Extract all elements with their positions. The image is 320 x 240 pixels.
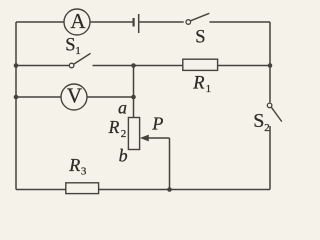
- svg-text:3: 3: [81, 165, 87, 177]
- junction node: left rail / voltmeter row: [14, 95, 19, 100]
- junction node: voltmeter row / R2 branch: [131, 95, 136, 100]
- wire: voltmeter row, left rail to voltmeter: [16, 96, 61, 98]
- svg-text:S: S: [65, 36, 75, 56]
- switch S1 blade: [74, 53, 91, 64]
- wire: voltmeter row, voltmeter to node: [87, 96, 134, 98]
- svg-text:R: R: [68, 155, 80, 175]
- wire: top rail, ammeter to battery: [90, 21, 133, 23]
- wire: bottom rail: [16, 189, 270, 191]
- voltmeter V circle: [61, 84, 87, 110]
- svg-text:V: V: [67, 84, 82, 108]
- junction node: middle rail / R2 branch: [131, 63, 136, 68]
- svg-text:1: 1: [206, 83, 212, 95]
- wire: middle rail, S1 through R1 to right rail: [93, 65, 271, 67]
- resistor R1 box: [183, 59, 218, 70]
- wire: top rail, switch S to right corner: [210, 21, 271, 23]
- ammeter A circle: [64, 9, 90, 35]
- svg-text:2: 2: [121, 128, 127, 140]
- switch S1 pivot circle: [69, 63, 74, 68]
- switch S2 blade: [271, 107, 281, 121]
- wire: left rail: [15, 22, 17, 190]
- svg-text:b: b: [119, 146, 128, 166]
- svg-text:S: S: [195, 28, 205, 48]
- junction node: middle rail / right rail: [268, 63, 273, 68]
- junction node: left rail / middle rail: [14, 63, 19, 68]
- resistor R3 box: [66, 183, 99, 194]
- junction node: wiper wire / bottom rail: [167, 187, 172, 192]
- wire: right rail lower (S2 to bottom corner): [269, 126, 271, 190]
- wire: vertical branch from middle rail down to R2 top: [133, 66, 135, 118]
- wire: right rail upper (to S2): [269, 22, 271, 103]
- wire: top rail, left corner to ammeter: [16, 21, 64, 23]
- wiper arrowhead pointing at R2: [140, 135, 149, 142]
- svg-text:A: A: [70, 9, 86, 33]
- rheostat R2 box: [128, 118, 139, 150]
- svg-text:1: 1: [75, 45, 81, 57]
- svg-text:R: R: [108, 117, 120, 137]
- wire: middle rail, left corner to S1: [16, 65, 69, 67]
- svg-text:P: P: [151, 114, 163, 134]
- svg-text:a: a: [118, 98, 127, 118]
- wire: wiper vertical down to bottom rail: [169, 138, 171, 190]
- svg-text:2: 2: [264, 122, 270, 134]
- wire: top rail, battery to switch S: [140, 21, 184, 23]
- wire: wiper horizontal from arrow to corner: [147, 137, 170, 139]
- svg-text:R: R: [192, 74, 204, 94]
- battery positive long plate: [138, 14, 140, 33]
- battery negative short plate: [133, 18, 135, 27]
- switch S blade: [191, 13, 210, 20]
- switch S pivot circle: [186, 20, 191, 25]
- switch S2 pivot circle: [267, 103, 272, 108]
- svg-text:S: S: [253, 110, 264, 132]
